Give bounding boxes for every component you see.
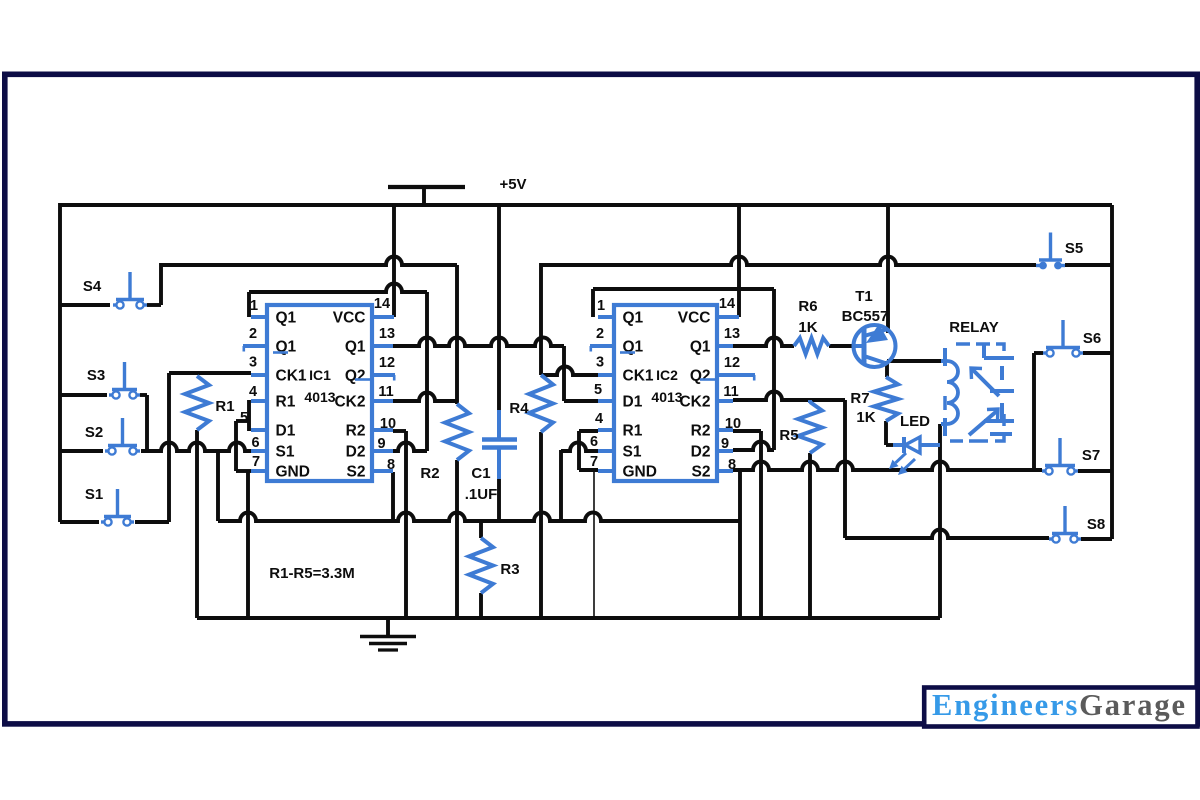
svg-text:S1: S1 [623, 444, 642, 461]
svg-text:12: 12 [379, 355, 395, 371]
svg-text:IC1: IC1 [309, 367, 331, 383]
svg-text:7: 7 [252, 454, 260, 470]
svg-text:4: 4 [249, 384, 257, 400]
svg-text:GND: GND [276, 464, 310, 481]
svg-text:R5: R5 [779, 427, 798, 444]
svg-text:1K: 1K [856, 409, 875, 426]
svg-text:R2: R2 [346, 423, 366, 440]
svg-text:CK1: CK1 [276, 368, 307, 385]
svg-text:LED: LED [900, 413, 930, 430]
svg-text:D1: D1 [623, 394, 643, 411]
svg-text:4013: 4013 [304, 389, 335, 405]
svg-text:12: 12 [724, 355, 740, 371]
svg-text:.1UF: .1UF [465, 486, 498, 503]
svg-text:6: 6 [590, 434, 598, 450]
svg-text:S1: S1 [276, 444, 295, 461]
svg-text:1K: 1K [798, 319, 817, 336]
svg-text:EngineersGarage: EngineersGarage [932, 688, 1185, 722]
svg-text:BC557: BC557 [842, 308, 889, 325]
svg-text:4013: 4013 [651, 389, 682, 405]
svg-text:S6: S6 [1083, 330, 1101, 347]
svg-text:8: 8 [728, 457, 736, 473]
svg-text:3: 3 [249, 355, 257, 371]
svg-text:S2: S2 [85, 424, 103, 441]
svg-text:13: 13 [724, 326, 740, 342]
svg-text:R1: R1 [215, 398, 234, 415]
svg-text:R2: R2 [691, 423, 711, 440]
svg-text:CK1: CK1 [623, 368, 654, 385]
svg-text:R1-R5=3.3M: R1-R5=3.3M [269, 565, 354, 582]
svg-text:Q2: Q2 [345, 368, 366, 385]
svg-text:S2: S2 [347, 464, 366, 481]
svg-text:5: 5 [594, 382, 602, 398]
svg-text:S8: S8 [1087, 516, 1105, 533]
svg-text:R2: R2 [420, 465, 439, 482]
svg-text:3: 3 [596, 355, 604, 371]
svg-text:Q1: Q1 [690, 339, 711, 356]
svg-text:VCC: VCC [678, 310, 711, 327]
svg-text:C1: C1 [471, 465, 490, 482]
svg-text:CK2: CK2 [334, 394, 365, 411]
svg-text:S7: S7 [1082, 447, 1100, 464]
svg-text:11: 11 [723, 384, 738, 400]
svg-text:R7: R7 [850, 390, 869, 407]
svg-text:10: 10 [380, 416, 396, 432]
svg-text:1: 1 [250, 298, 258, 314]
svg-text:R3: R3 [500, 561, 519, 578]
svg-text:S5: S5 [1065, 240, 1083, 257]
svg-text:GND: GND [623, 464, 657, 481]
svg-text:5: 5 [240, 410, 248, 426]
svg-text:D2: D2 [691, 444, 711, 461]
svg-text:14: 14 [374, 296, 390, 312]
svg-text:RELAY: RELAY [949, 319, 998, 336]
svg-text:R6: R6 [798, 298, 817, 315]
svg-text:2: 2 [249, 326, 257, 342]
svg-text:IC2: IC2 [656, 367, 678, 383]
svg-text:R4: R4 [509, 400, 529, 417]
svg-text:+5V: +5V [499, 176, 526, 193]
svg-text:11: 11 [378, 384, 393, 400]
svg-text:R1: R1 [276, 394, 296, 411]
svg-text:S2: S2 [692, 464, 711, 481]
svg-text:14: 14 [719, 296, 735, 312]
svg-text:S1: S1 [85, 486, 103, 503]
svg-text:7: 7 [590, 454, 598, 470]
svg-text:CK2: CK2 [679, 394, 710, 411]
svg-text:9: 9 [377, 436, 385, 452]
svg-text:1: 1 [597, 298, 605, 314]
svg-text:10: 10 [725, 416, 741, 432]
svg-text:D2: D2 [346, 444, 366, 461]
svg-text:R1: R1 [623, 423, 643, 440]
svg-text:Q1: Q1 [276, 310, 297, 327]
svg-text:6: 6 [251, 435, 259, 451]
svg-text:S3: S3 [87, 367, 105, 384]
svg-text:S4: S4 [83, 278, 102, 295]
svg-text:9: 9 [721, 436, 729, 452]
svg-text:Q1: Q1 [345, 339, 366, 356]
svg-text:VCC: VCC [333, 310, 366, 327]
svg-text:Q2: Q2 [690, 368, 711, 385]
svg-text:D1: D1 [276, 423, 296, 440]
svg-text:13: 13 [379, 326, 395, 342]
svg-text:4: 4 [595, 411, 603, 427]
svg-text:8: 8 [387, 457, 395, 473]
svg-text:Q1: Q1 [623, 310, 644, 327]
svg-text:2: 2 [596, 326, 604, 342]
svg-text:T1: T1 [855, 288, 873, 305]
